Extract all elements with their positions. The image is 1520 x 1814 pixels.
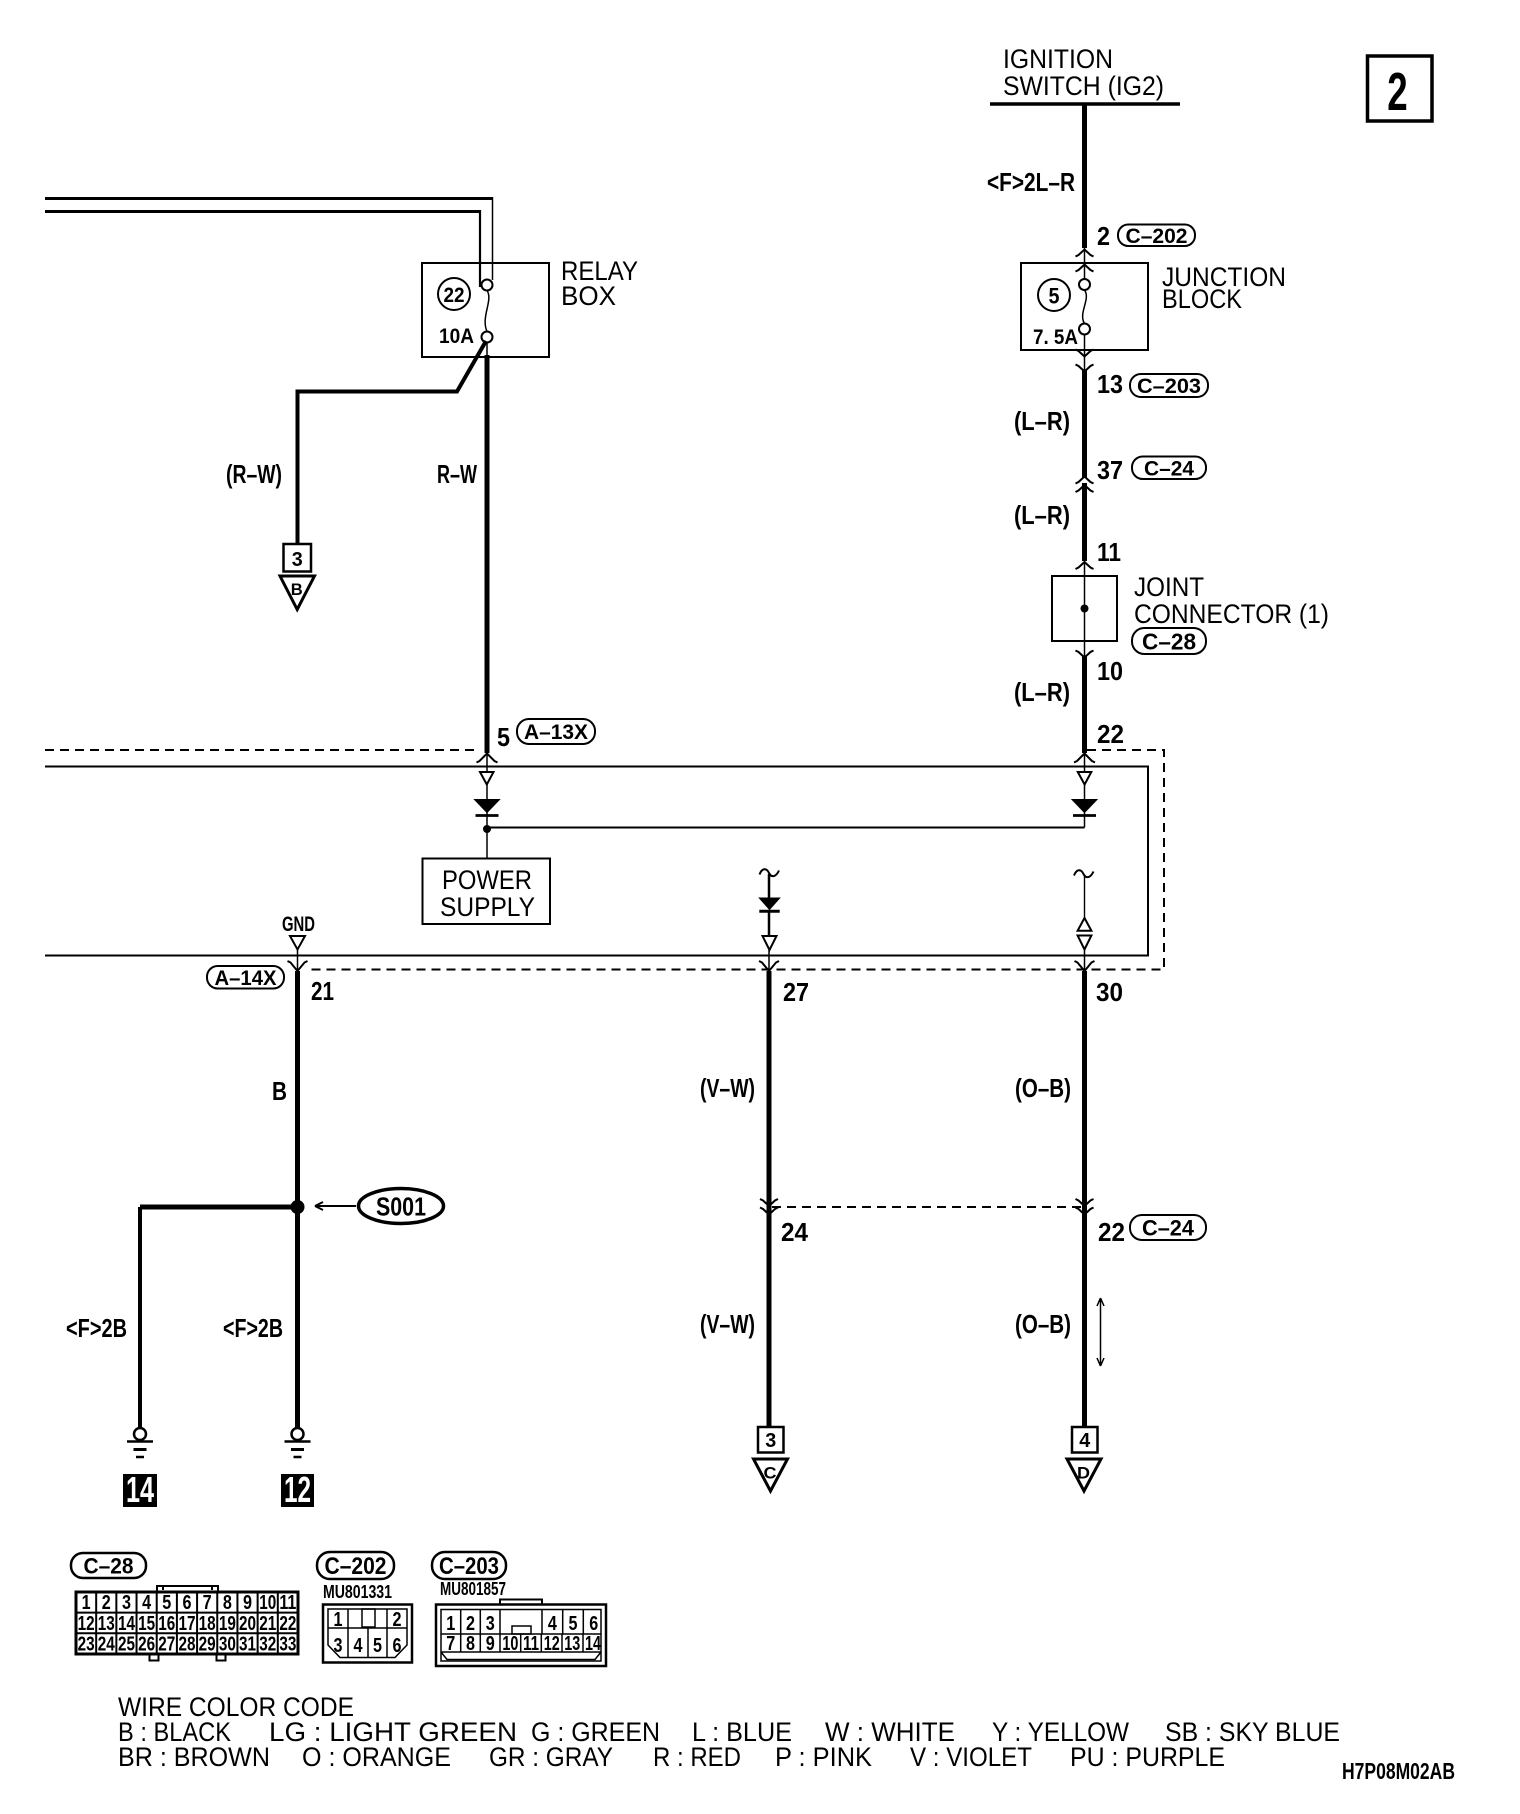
svg-text:7: 7 (203, 1592, 212, 1614)
svg-text:(L–R): (L–R) (1014, 406, 1070, 436)
svg-text:14: 14 (118, 1613, 136, 1635)
svg-text:5: 5 (162, 1592, 171, 1614)
svg-text:25: 25 (118, 1634, 135, 1656)
svg-text:9: 9 (243, 1592, 252, 1614)
svg-text:GR : GRAY: GR : GRAY (489, 1742, 613, 1772)
svg-text:IGNITION: IGNITION (1003, 44, 1113, 74)
svg-text:4: 4 (354, 1635, 364, 1657)
svg-text:32: 32 (259, 1634, 276, 1656)
svg-text:30: 30 (219, 1634, 236, 1656)
svg-text:(O–B): (O–B) (1015, 1073, 1071, 1103)
svg-text:1: 1 (334, 1609, 343, 1631)
svg-text:27: 27 (158, 1634, 175, 1656)
svg-text:1: 1 (446, 1613, 455, 1635)
svg-text:19: 19 (219, 1613, 236, 1635)
svg-text:BLOCK: BLOCK (1162, 284, 1242, 314)
svg-text:(L–R): (L–R) (1014, 500, 1070, 530)
svg-text:C–202: C–202 (325, 1553, 387, 1580)
svg-text:5: 5 (1049, 284, 1060, 309)
svg-text:4: 4 (142, 1592, 152, 1614)
svg-text:B: B (272, 1076, 287, 1106)
svg-text:R–W: R–W (437, 459, 477, 489)
svg-text:<F>2B: <F>2B (66, 1313, 127, 1343)
svg-text:12: 12 (544, 1633, 560, 1655)
svg-text:(V–W): (V–W) (700, 1073, 755, 1103)
svg-text:1: 1 (82, 1592, 91, 1614)
svg-text:10: 10 (502, 1633, 518, 1655)
svg-text:PU : PURPLE: PU : PURPLE (1070, 1742, 1225, 1772)
svg-text:33: 33 (279, 1634, 296, 1656)
svg-text:3: 3 (334, 1635, 343, 1657)
svg-text:C–24: C–24 (1142, 1215, 1195, 1240)
svg-text:BOX: BOX (561, 281, 616, 311)
svg-text:C–202: C–202 (1126, 225, 1188, 248)
svg-text:MU801331: MU801331 (323, 1582, 392, 1602)
svg-text:10: 10 (259, 1592, 276, 1614)
svg-text:12: 12 (284, 1469, 311, 1510)
svg-text:20: 20 (239, 1613, 256, 1635)
svg-text:21: 21 (311, 976, 334, 1006)
svg-text:8: 8 (223, 1592, 232, 1614)
svg-text:37: 37 (1097, 455, 1123, 485)
svg-text:6: 6 (182, 1592, 191, 1614)
svg-text:(L–R): (L–R) (1014, 677, 1070, 707)
svg-text:V : VIOLET: V : VIOLET (910, 1742, 1032, 1772)
svg-text:13: 13 (564, 1633, 580, 1655)
svg-text:31: 31 (239, 1634, 256, 1656)
svg-text:14: 14 (585, 1633, 602, 1655)
svg-text:15: 15 (138, 1613, 155, 1635)
svg-text:3: 3 (486, 1613, 495, 1635)
svg-text:7: 7 (446, 1633, 455, 1655)
svg-text:H7P08M02AB: H7P08M02AB (1342, 1758, 1455, 1784)
svg-text:GND: GND (282, 913, 315, 936)
svg-text:28: 28 (178, 1634, 195, 1656)
svg-text:8: 8 (466, 1633, 475, 1655)
svg-text:SWITCH (IG2): SWITCH (IG2) (1003, 71, 1164, 101)
svg-text:MU801857: MU801857 (440, 1579, 506, 1599)
svg-text:11: 11 (523, 1633, 539, 1655)
svg-text:7. 5A: 7. 5A (1033, 326, 1078, 349)
svg-text:B: B (291, 580, 303, 599)
svg-text:P : PINK: P : PINK (775, 1742, 872, 1772)
svg-text:24: 24 (781, 1217, 809, 1247)
svg-text:6: 6 (393, 1635, 402, 1657)
svg-text:22: 22 (279, 1613, 296, 1635)
svg-text:(O–B): (O–B) (1015, 1309, 1071, 1339)
svg-text:R : RED: R : RED (653, 1742, 741, 1772)
svg-text:A–13X: A–13X (524, 721, 588, 744)
svg-text:6: 6 (589, 1613, 598, 1635)
svg-text:2: 2 (466, 1613, 475, 1635)
svg-text:<F>2L–R: <F>2L–R (987, 167, 1075, 197)
svg-text:10: 10 (1097, 656, 1123, 686)
svg-text:10A: 10A (439, 325, 474, 348)
svg-text:<F>2B: <F>2B (223, 1313, 283, 1343)
svg-text:CONNECTOR (1): CONNECTOR (1) (1134, 599, 1329, 629)
svg-text:2: 2 (102, 1592, 111, 1614)
svg-text:2: 2 (393, 1609, 402, 1631)
svg-text:2: 2 (1097, 221, 1110, 251)
svg-text:3: 3 (292, 549, 303, 571)
svg-text:22: 22 (1098, 1217, 1125, 1247)
svg-text:C–24: C–24 (1144, 457, 1194, 480)
svg-text:26: 26 (138, 1634, 155, 1656)
svg-text:S001: S001 (376, 1192, 426, 1222)
svg-text:11: 11 (1097, 537, 1121, 567)
svg-text:30: 30 (1096, 977, 1123, 1007)
svg-text:4: 4 (548, 1613, 558, 1635)
svg-text:(V–W): (V–W) (700, 1309, 755, 1339)
svg-text:3: 3 (765, 1430, 776, 1452)
svg-text:13: 13 (98, 1613, 115, 1635)
svg-text:D: D (1077, 1464, 1090, 1483)
svg-text:5: 5 (497, 722, 510, 752)
svg-text:14: 14 (126, 1469, 154, 1510)
svg-text:22: 22 (444, 284, 465, 307)
svg-text:24: 24 (98, 1634, 116, 1656)
svg-text:29: 29 (199, 1634, 216, 1656)
svg-text:16: 16 (158, 1613, 175, 1635)
svg-text:27: 27 (783, 977, 809, 1007)
svg-text:A–14X: A–14X (215, 967, 277, 990)
svg-text:JOINT: JOINT (1134, 572, 1204, 602)
svg-text:3: 3 (122, 1592, 131, 1614)
svg-text:12: 12 (78, 1613, 95, 1635)
svg-text:(R–W): (R–W) (226, 459, 282, 489)
svg-text:C–28: C–28 (1142, 628, 1196, 654)
svg-text:SUPPLY: SUPPLY (440, 892, 535, 922)
svg-text:11: 11 (279, 1592, 296, 1614)
svg-text:4: 4 (1079, 1430, 1091, 1452)
svg-text:22: 22 (1097, 719, 1124, 749)
svg-text:POWER: POWER (442, 865, 532, 895)
svg-text:13: 13 (1097, 369, 1123, 399)
svg-text:C–203: C–203 (1137, 375, 1201, 398)
svg-text:5: 5 (569, 1613, 578, 1635)
svg-text:18: 18 (199, 1613, 216, 1635)
svg-text:C–28: C–28 (84, 1553, 134, 1578)
svg-text:O : ORANGE: O : ORANGE (302, 1742, 451, 1772)
svg-text:BR : BROWN: BR : BROWN (118, 1742, 270, 1772)
svg-text:C: C (764, 1464, 777, 1483)
svg-text:21: 21 (259, 1613, 276, 1635)
svg-text:2: 2 (1387, 61, 1407, 122)
svg-text:C–203: C–203 (439, 1553, 499, 1580)
svg-text:23: 23 (78, 1634, 95, 1656)
svg-text:9: 9 (486, 1633, 495, 1655)
svg-text:5: 5 (373, 1635, 382, 1657)
svg-text:17: 17 (178, 1613, 195, 1635)
